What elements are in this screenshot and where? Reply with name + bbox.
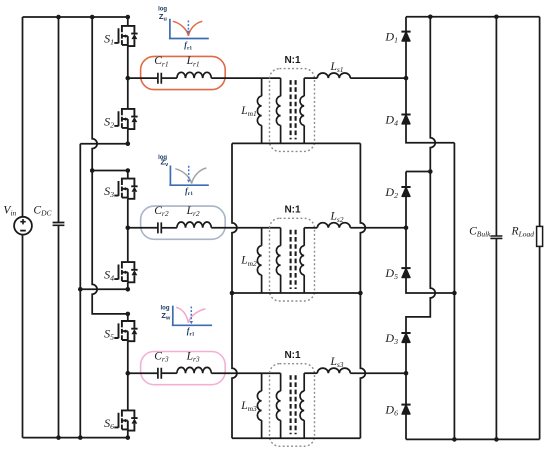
transformer T3 core bbox=[291, 375, 296, 434]
wire: T2 secondary to Ls2 bbox=[304, 227, 317, 229]
node: D5 wire on return line bbox=[452, 291, 457, 296]
node: feed line to D2 junction bbox=[428, 169, 433, 174]
node: phase-w rectifier junction bbox=[404, 371, 409, 376]
inset graph 2 resonance arrow bbox=[188, 166, 190, 179]
transformer T2 primary winding bbox=[280, 228, 282, 246]
node: CBulk on + rail bbox=[494, 14, 499, 19]
node: T2 bottom rail on right bus bbox=[358, 291, 363, 296]
inductor Ls1 bbox=[317, 73, 350, 78]
node: S4 return junction on low-side bus bbox=[78, 287, 83, 292]
wire: rectifier leg D1-D4 bbox=[406, 17, 454, 143]
capacitor Cr1 bbox=[158, 73, 161, 84]
node: high-side bus junction on + rail bbox=[90, 15, 95, 20]
node: phase-v rectifier junction bbox=[404, 226, 409, 231]
diode D5 bbox=[384, 266, 410, 281]
wire: CBulk lower lead bbox=[495, 239, 497, 440]
svg-text:N:1: N:1 bbox=[284, 350, 301, 361]
transformer T3 secondary winding bbox=[303, 373, 305, 391]
capacitor CDC bbox=[53, 223, 65, 226]
node: return line on output - rail bbox=[452, 437, 457, 442]
wire: transformer T2 bottom rail bbox=[232, 292, 360, 294]
inductor Lr2 bbox=[177, 222, 211, 228]
inset graph 2 axes bbox=[169, 166, 208, 186]
inset graph 1 impedance curve bbox=[173, 21, 203, 36]
capacitor CBulk bbox=[490, 236, 502, 238]
wire: S4 source return wire bbox=[80, 288, 128, 290]
transformer T1 primary winding bbox=[280, 78, 282, 96]
capacitor Cr2 bbox=[158, 222, 161, 233]
node: S6 source junction on - rail bbox=[126, 435, 131, 440]
wire: Cr2 to Lr2 bbox=[161, 227, 177, 229]
capacitor Cr3 bbox=[158, 368, 161, 379]
node: low-side bus junction on - rail bbox=[78, 435, 83, 440]
wire: CBulk upper lead bbox=[495, 17, 497, 236]
inset graph 3 resonance arrow bbox=[190, 307, 192, 321]
wire: Vin lower lead bbox=[22, 235, 24, 438]
node: CDC bottom junction bbox=[56, 435, 61, 440]
highlight box resonant tank 3 bbox=[141, 352, 226, 385]
transformer T3 primary winding bbox=[280, 373, 282, 391]
wire: rectifier leg D2-D5 bbox=[406, 172, 454, 294]
transformer T3 dashed outline bbox=[270, 364, 315, 447]
wire: transformer T1 bottom rail bbox=[232, 142, 360, 144]
inset graph 3 axes bbox=[172, 306, 212, 326]
transformer T2 dashed outline bbox=[270, 218, 315, 301]
transistor S2 bbox=[104, 109, 138, 130]
wire: S2 source return wire bbox=[80, 143, 128, 145]
transformer T1 core bbox=[291, 80, 296, 139]
inductor Lm1 (magnetizing) bbox=[261, 78, 263, 96]
inset graph 2 impedance curve bbox=[175, 168, 206, 184]
wire: input negative rail (bottom left) bbox=[23, 437, 128, 439]
svg-text:N:1: N:1 bbox=[284, 205, 301, 216]
transformer T1 dashed outline bbox=[270, 69, 315, 152]
wire: S3 drain lead bbox=[127, 171, 129, 179]
wire: phase 3 node to Cr3 bbox=[128, 372, 158, 374]
wire: Ls1 to rectifier node 1 bbox=[350, 77, 406, 79]
transistor S6 bbox=[104, 410, 138, 431]
inset graph 1 axes bbox=[169, 19, 209, 39]
wire: S3 source to phase-v node bbox=[127, 199, 129, 228]
transistor S4 bbox=[104, 262, 138, 283]
wire: S2 drain lead bbox=[127, 78, 129, 109]
node: feed line on + rail bbox=[428, 14, 433, 19]
wire: Vin upper lead bbox=[22, 17, 24, 217]
inset graph 3 impedance curve bbox=[176, 307, 205, 323]
wire: S2 source lead bbox=[127, 129, 129, 144]
wire: phase 1 node to Cr1 bbox=[128, 77, 158, 79]
wire: primary/secondary link bus left (hops phase v and w wires) bbox=[232, 143, 237, 438]
wire: CDC lower lead bbox=[58, 225, 60, 437]
node: S4 source corner junction bbox=[126, 287, 131, 292]
wire: Ls2 to rectifier node 2 bbox=[350, 227, 406, 229]
node: CBulk on - rail bbox=[494, 437, 499, 442]
transistor S5 bbox=[104, 321, 138, 342]
inductor Lr3 bbox=[177, 367, 211, 373]
wire: S5 source to phase-w node bbox=[127, 341, 129, 373]
svg-text:N:1: N:1 bbox=[284, 55, 301, 66]
wire: input positive rail (top left) bbox=[23, 16, 128, 18]
wire: S6 source lead bbox=[127, 431, 129, 438]
wire: S3 drain branch wire bbox=[92, 170, 128, 172]
wire: S1 source to phase-u node bbox=[127, 46, 129, 78]
diode D6 bbox=[384, 402, 410, 417]
diode D2 bbox=[384, 185, 410, 200]
wire: phase 2 node to Cr2 bbox=[128, 227, 158, 229]
wire: T1 secondary to Ls1 bbox=[304, 77, 317, 79]
wire: CDC upper lead bbox=[58, 17, 60, 222]
wire: S6 drain lead bbox=[127, 373, 129, 410]
transformer T2 core bbox=[291, 230, 296, 289]
diode D1 bbox=[384, 29, 410, 44]
transformer T2 secondary winding bbox=[303, 228, 305, 246]
node: CDC top junction bbox=[56, 15, 61, 20]
node: S5 drain corner junction bbox=[126, 312, 131, 317]
voltage source Vin bbox=[14, 217, 32, 235]
inductor Lm3 (magnetizing) bbox=[261, 373, 263, 391]
transformer T1 secondary winding bbox=[303, 78, 305, 96]
wire: S4 source lead bbox=[127, 282, 129, 289]
diode D3 bbox=[384, 331, 410, 346]
node: phase-w midpoint bbox=[126, 371, 131, 376]
wire: S1 drain lead bbox=[127, 17, 129, 26]
transistor S1 bbox=[104, 26, 138, 47]
transistor S3 bbox=[104, 179, 138, 200]
wire: Cr1 to Lr1 bbox=[161, 77, 177, 79]
wire: transformer T3 bottom rail bbox=[232, 437, 360, 439]
inductor Lr1 bbox=[177, 72, 211, 78]
wire: output + rail bbox=[406, 16, 540, 18]
wire: Lr2 to transformer 2 primary bbox=[211, 227, 280, 229]
inset graph 1 resonance arrow bbox=[187, 21, 189, 31]
highlight box resonant tank 2 bbox=[141, 206, 226, 239]
wire: S4 drain lead bbox=[127, 228, 129, 262]
wire: D4/D5 return line bbox=[453, 143, 455, 440]
inductor Lm2 (magnetizing) bbox=[261, 228, 263, 246]
wire: low-side return bus bbox=[79, 144, 81, 438]
resistor RLoad bbox=[537, 226, 543, 246]
node: phase-v midpoint bbox=[126, 226, 131, 231]
node: S2 source corner junction bbox=[126, 141, 131, 146]
node: phase-u midpoint bbox=[126, 76, 131, 81]
node: S3 drain corner junction bbox=[126, 168, 131, 173]
inductor Ls2 bbox=[317, 223, 350, 228]
wire: output - rail bbox=[406, 438, 540, 440]
node: T2 bottom rail on left bus bbox=[230, 291, 235, 296]
highlight box resonant tank 1 bbox=[141, 56, 226, 89]
node: S1 drain junction on + rail bbox=[126, 15, 131, 20]
inductor Ls3 bbox=[317, 368, 350, 373]
wire: D2/D3 feed line from + rail (hops D4 and D5 wires) bbox=[406, 17, 435, 333]
wire: rectifier leg D3-D6 bbox=[405, 333, 407, 439]
wire: high-side DC bus (hops over S2 and S4 return wires) bbox=[92, 17, 128, 314]
wire: T3 secondary to Ls3 bbox=[304, 372, 317, 374]
wire: RLoad lower lead bbox=[539, 246, 541, 439]
wire: D2 cathode link bbox=[406, 171, 430, 173]
wire: primary/secondary link bus right (hops phase v and w wires) bbox=[360, 143, 365, 438]
wire: RLoad upper lead bbox=[539, 17, 541, 227]
diode D4 bbox=[384, 112, 410, 127]
wire: Cr3 to Lr3 bbox=[161, 372, 177, 374]
wire: Lr3 to transformer 3 primary bbox=[211, 372, 280, 374]
wire: Ls3 to rectifier node 3 bbox=[350, 372, 406, 374]
node: bus to S3 drain junction bbox=[90, 168, 95, 173]
wire: S5 drain lead bbox=[127, 314, 129, 321]
wire: Lr1 to transformer 1 primary bbox=[211, 77, 280, 79]
node: phase-u rectifier junction bbox=[404, 76, 409, 81]
